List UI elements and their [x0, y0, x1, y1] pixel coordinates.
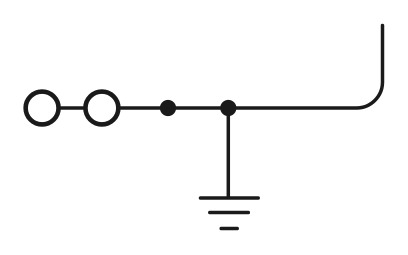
ground bar middle [210, 211, 249, 215]
junction node dot 2 [220, 100, 236, 116]
wire vertical to ground [227, 108, 231, 198]
wire main horizontal with curve up to top right [119, 26, 383, 109]
terminal circle right [85, 92, 118, 125]
terminal circle left [26, 92, 59, 125]
ground bar bottom [221, 227, 237, 231]
junction node dot 1 [160, 100, 176, 116]
wire between terminal circles [58, 106, 86, 110]
ground bar top [201, 196, 259, 200]
